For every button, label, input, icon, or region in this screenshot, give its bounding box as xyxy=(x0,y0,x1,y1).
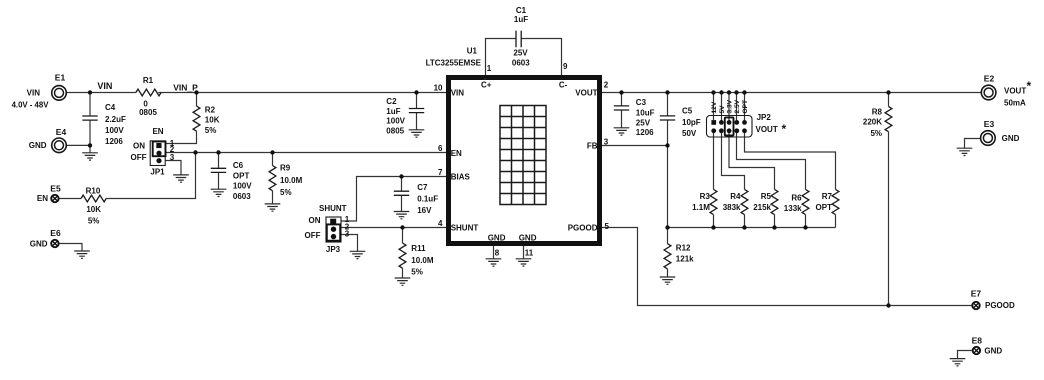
svg-text:C1: C1 xyxy=(516,6,527,15)
svg-text:PGOOD: PGOOD xyxy=(985,301,1015,310)
svg-text:10.0M: 10.0M xyxy=(280,176,303,185)
svg-text:3: 3 xyxy=(345,230,350,239)
svg-text:E7: E7 xyxy=(971,288,982,298)
svg-text:ON: ON xyxy=(309,216,321,225)
svg-text:3: 3 xyxy=(604,138,609,147)
svg-text:1.1M: 1.1M xyxy=(692,203,710,212)
svg-text:VOUT: VOUT xyxy=(756,125,778,134)
svg-text:EN: EN xyxy=(37,194,48,203)
svg-text:GND: GND xyxy=(519,233,537,242)
svg-text:C4: C4 xyxy=(105,103,116,112)
svg-text:R11: R11 xyxy=(411,244,426,253)
svg-text:R10: R10 xyxy=(86,187,101,196)
svg-text:2: 2 xyxy=(604,81,609,90)
svg-text:16V: 16V xyxy=(417,206,432,215)
svg-text:R6: R6 xyxy=(791,194,802,203)
svg-text:SHUNT: SHUNT xyxy=(451,224,479,233)
svg-text:C7: C7 xyxy=(417,183,428,192)
svg-text:1uF: 1uF xyxy=(514,15,528,24)
svg-text:50mA: 50mA xyxy=(1004,99,1026,108)
svg-text:R7: R7 xyxy=(822,192,833,201)
svg-text:7: 7 xyxy=(438,168,443,177)
svg-text:OPT: OPT xyxy=(742,100,749,114)
svg-text:25V: 25V xyxy=(636,118,651,127)
svg-text:R5: R5 xyxy=(761,192,772,201)
svg-text:121k: 121k xyxy=(676,254,694,263)
svg-text:10K: 10K xyxy=(205,116,220,125)
svg-text:100V: 100V xyxy=(386,117,405,126)
svg-text:C+: C+ xyxy=(481,81,492,90)
svg-text:GND: GND xyxy=(488,233,506,242)
svg-text:LTC3255EMSE: LTC3255EMSE xyxy=(426,58,482,67)
svg-text:C6: C6 xyxy=(233,161,244,170)
svg-text:5%: 5% xyxy=(870,129,882,138)
svg-text:5%: 5% xyxy=(411,267,423,276)
svg-text:5V: 5V xyxy=(719,105,726,114)
svg-text:11: 11 xyxy=(525,249,534,258)
svg-text:50V: 50V xyxy=(682,129,697,138)
svg-text:SHUNT: SHUNT xyxy=(319,204,347,213)
svg-text:E2: E2 xyxy=(984,74,995,84)
svg-text:5: 5 xyxy=(605,222,610,231)
svg-text:4: 4 xyxy=(438,219,443,228)
svg-text:VIN: VIN xyxy=(27,89,41,98)
svg-text:R12: R12 xyxy=(676,243,691,252)
svg-text:5%: 5% xyxy=(88,217,100,226)
svg-text:*: * xyxy=(1027,79,1032,93)
svg-text:C3: C3 xyxy=(636,98,647,107)
svg-text:4.0V - 48V: 4.0V - 48V xyxy=(12,101,50,110)
svg-text:PGOOD: PGOOD xyxy=(568,224,598,233)
svg-text:R4: R4 xyxy=(730,192,741,201)
svg-text:6: 6 xyxy=(438,144,443,153)
svg-text:0805: 0805 xyxy=(386,127,404,136)
svg-text:R9: R9 xyxy=(280,164,291,173)
svg-text:133k: 133k xyxy=(784,204,802,213)
svg-text:BIAS: BIAS xyxy=(451,173,471,182)
svg-text:OFF: OFF xyxy=(305,231,321,240)
svg-text:E1: E1 xyxy=(55,73,66,83)
svg-text:EN: EN xyxy=(451,149,462,158)
svg-text:VIN: VIN xyxy=(451,88,465,97)
svg-text:R3: R3 xyxy=(700,192,711,201)
svg-text:0.1uF: 0.1uF xyxy=(417,195,438,204)
svg-text:GND: GND xyxy=(984,347,1002,356)
svg-text:1206: 1206 xyxy=(636,128,654,137)
svg-text:EN: EN xyxy=(152,127,163,136)
svg-text:OFF: OFF xyxy=(131,153,147,162)
svg-text:2.2uF: 2.2uF xyxy=(105,115,126,124)
svg-text:5%: 5% xyxy=(205,126,217,135)
svg-text:10.0M: 10.0M xyxy=(411,256,434,265)
svg-text:VOUT: VOUT xyxy=(1004,87,1026,96)
svg-text:10uF: 10uF xyxy=(636,109,655,118)
svg-text:FB: FB xyxy=(587,142,598,151)
svg-text:3: 3 xyxy=(170,153,175,162)
svg-text:OPT: OPT xyxy=(816,203,833,212)
svg-text:VOUT: VOUT xyxy=(575,88,597,97)
svg-text:9: 9 xyxy=(563,62,568,71)
svg-text:25V: 25V xyxy=(513,49,528,58)
svg-text:E3: E3 xyxy=(984,119,995,129)
svg-text:1206: 1206 xyxy=(105,137,123,146)
svg-text:220K: 220K xyxy=(863,118,882,127)
svg-text:1uF: 1uF xyxy=(386,107,400,116)
svg-text:JP3: JP3 xyxy=(326,245,341,254)
svg-text:383k: 383k xyxy=(723,203,741,212)
svg-text:GND: GND xyxy=(1002,134,1020,143)
svg-text:OPT: OPT xyxy=(233,172,250,181)
svg-text:R8: R8 xyxy=(872,108,883,117)
svg-text:12V: 12V xyxy=(711,101,718,113)
svg-text:C-: C- xyxy=(559,81,568,90)
svg-text:215k: 215k xyxy=(753,203,771,212)
svg-text:GND: GND xyxy=(30,239,48,248)
svg-text:100V: 100V xyxy=(233,182,252,191)
svg-text:E8: E8 xyxy=(972,336,983,346)
svg-text:E4: E4 xyxy=(56,127,67,137)
svg-text:ON: ON xyxy=(133,142,145,151)
svg-text:10: 10 xyxy=(434,84,443,93)
svg-text:0603: 0603 xyxy=(512,58,530,67)
svg-text:0603: 0603 xyxy=(233,192,251,201)
svg-text:GND: GND xyxy=(29,141,47,150)
svg-text:8: 8 xyxy=(495,249,500,258)
svg-text:VIN: VIN xyxy=(97,81,112,91)
svg-text:R2: R2 xyxy=(205,105,216,114)
svg-text:C5: C5 xyxy=(682,106,693,115)
svg-text:U1: U1 xyxy=(467,47,478,56)
svg-text:*: * xyxy=(782,122,787,136)
svg-text:2.5V: 2.5V xyxy=(734,99,741,113)
svg-text:0805: 0805 xyxy=(139,108,157,117)
svg-text:E5: E5 xyxy=(50,183,61,193)
svg-text:R1: R1 xyxy=(143,76,154,85)
svg-text:VIN_P: VIN_P xyxy=(173,82,198,92)
svg-text:C2: C2 xyxy=(386,97,397,106)
svg-text:E6: E6 xyxy=(50,228,61,238)
svg-text:10pF: 10pF xyxy=(682,118,701,127)
svg-text:5%: 5% xyxy=(280,188,292,197)
svg-text:10K: 10K xyxy=(86,205,101,214)
svg-text:JP1: JP1 xyxy=(150,167,165,176)
svg-text:100V: 100V xyxy=(105,126,124,135)
svg-text:1: 1 xyxy=(487,64,492,73)
svg-text:3.3V: 3.3V xyxy=(727,99,734,113)
svg-text:JP2: JP2 xyxy=(757,113,772,122)
